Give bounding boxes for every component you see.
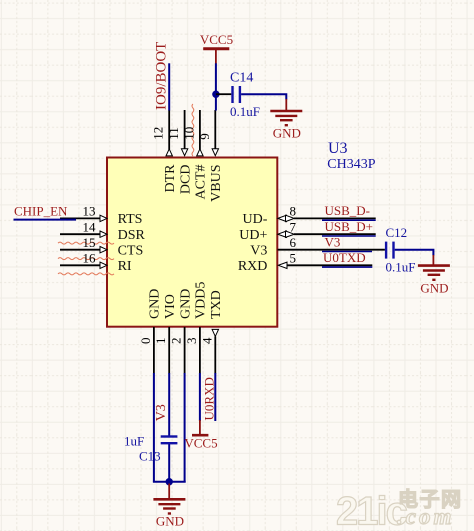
svg-text:TXD: TXD bbox=[209, 290, 224, 319]
svg-text:7: 7 bbox=[290, 219, 297, 234]
svg-text:0: 0 bbox=[138, 338, 153, 345]
svg-text:5: 5 bbox=[290, 250, 297, 265]
svg-text:1: 1 bbox=[153, 338, 168, 345]
svg-text:11: 11 bbox=[166, 127, 181, 140]
svg-text:V3: V3 bbox=[325, 235, 341, 250]
svg-text:RI: RI bbox=[118, 259, 132, 274]
svg-text:C12: C12 bbox=[386, 225, 408, 240]
svg-text:.com: .com bbox=[397, 504, 454, 529]
svg-text:U0RXD: U0RXD bbox=[201, 377, 216, 420]
svg-text:U0TXD: U0TXD bbox=[323, 250, 366, 265]
svg-text:U3: U3 bbox=[328, 140, 348, 157]
svg-text:C14: C14 bbox=[230, 71, 253, 86]
svg-text:8: 8 bbox=[290, 204, 297, 219]
svg-text:ACT#: ACT# bbox=[194, 165, 209, 200]
svg-text:0.1uF: 0.1uF bbox=[386, 260, 416, 275]
svg-text:14: 14 bbox=[83, 219, 97, 234]
svg-text:UD-: UD- bbox=[243, 212, 268, 227]
svg-text:GND: GND bbox=[156, 514, 184, 529]
svg-text:CTS: CTS bbox=[118, 243, 144, 258]
svg-text:4: 4 bbox=[199, 337, 214, 344]
svg-text:16: 16 bbox=[83, 250, 97, 265]
svg-text:3: 3 bbox=[184, 338, 199, 345]
svg-text:USB_D-: USB_D- bbox=[325, 203, 371, 218]
svg-text:UD+: UD+ bbox=[239, 228, 267, 243]
svg-text:15: 15 bbox=[83, 235, 96, 250]
svg-text:RTS: RTS bbox=[118, 212, 143, 227]
svg-text:VDD5: VDD5 bbox=[194, 282, 209, 319]
svg-text:9: 9 bbox=[197, 133, 212, 140]
svg-text:USB_D+: USB_D+ bbox=[325, 219, 374, 234]
svg-text:V3: V3 bbox=[154, 404, 169, 421]
svg-text:VCC5: VCC5 bbox=[184, 436, 217, 451]
svg-text:IO9/BOOT: IO9/BOOT bbox=[153, 42, 169, 110]
svg-text:1uF: 1uF bbox=[124, 434, 144, 449]
svg-text:13: 13 bbox=[83, 204, 96, 219]
svg-text:12: 12 bbox=[151, 127, 166, 140]
svg-text:VIO: VIO bbox=[163, 294, 178, 319]
svg-text:GND: GND bbox=[273, 126, 301, 141]
svg-text:VCC5: VCC5 bbox=[200, 32, 233, 47]
svg-text:DCD: DCD bbox=[178, 165, 193, 195]
svg-text:GND: GND bbox=[420, 281, 448, 296]
svg-text:10: 10 bbox=[181, 127, 196, 140]
svg-text:2: 2 bbox=[169, 338, 184, 345]
svg-text:DTR: DTR bbox=[163, 164, 178, 193]
svg-text:GND: GND bbox=[178, 289, 193, 319]
svg-text:DSR: DSR bbox=[118, 228, 146, 243]
svg-text:CH343P: CH343P bbox=[327, 157, 375, 172]
svg-text:C13: C13 bbox=[139, 449, 161, 464]
svg-text:VBUS: VBUS bbox=[209, 165, 224, 202]
svg-text:0.1uF: 0.1uF bbox=[230, 104, 260, 119]
svg-text:GND: GND bbox=[148, 289, 163, 319]
svg-text:V3: V3 bbox=[250, 243, 267, 258]
svg-text:CHIP_EN: CHIP_EN bbox=[14, 204, 68, 219]
svg-text:6: 6 bbox=[290, 235, 297, 250]
svg-text:RXD: RXD bbox=[238, 259, 268, 274]
